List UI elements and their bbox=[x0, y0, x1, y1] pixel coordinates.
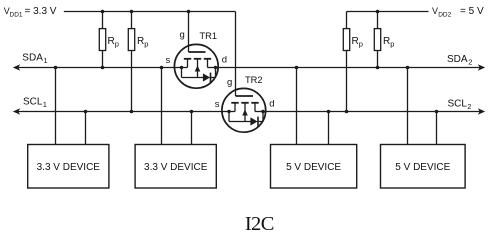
wire device3 SCL bbox=[328, 112, 330, 145]
wire SCL2 bbox=[266, 108, 486, 115]
wire VDD2 rail bbox=[347, 11, 429, 13]
wire device4 SCL bbox=[436, 112, 438, 145]
device box 4 (5 V DEVICE) bbox=[381, 145, 466, 189]
svg-text:s: s bbox=[215, 99, 220, 110]
wire TR1 gate bbox=[188, 12, 190, 53]
wire device1 SCL bbox=[85, 112, 87, 145]
wire device1 SDA bbox=[55, 68, 57, 145]
junction R4-SDA2 bbox=[376, 66, 380, 70]
svg-text:R: R bbox=[352, 36, 359, 47]
resistor R3 (Rp right SCL) bbox=[343, 12, 349, 112]
resistor R1 (Rp left SDA) bbox=[99, 12, 105, 68]
svg-text:s: s bbox=[166, 55, 171, 66]
svg-text:SDA: SDA bbox=[447, 54, 468, 65]
wire SDA2 bbox=[218, 64, 485, 71]
svg-text:DD2: DD2 bbox=[438, 12, 451, 19]
svg-text:2: 2 bbox=[467, 102, 471, 111]
device box 2 (3.3 V DEVICE) bbox=[135, 145, 216, 189]
svg-text:2: 2 bbox=[468, 57, 472, 66]
junction R1-SDA1 bbox=[101, 66, 105, 70]
svg-text:1: 1 bbox=[44, 56, 48, 65]
node VDD2 label bbox=[432, 6, 484, 19]
value label Rp of R3 bbox=[352, 36, 363, 49]
junction SDA1-device1 bbox=[54, 66, 58, 70]
svg-text:DD1: DD1 bbox=[10, 12, 23, 19]
svg-text:R: R bbox=[137, 36, 144, 47]
svg-text:3.3 V DEVICE: 3.3 V DEVICE bbox=[144, 162, 208, 173]
node SDA1 label bbox=[22, 52, 47, 65]
svg-text:5 V DEVICE: 5 V DEVICE bbox=[395, 162, 450, 173]
svg-text:d: d bbox=[269, 99, 274, 110]
junction SDA1-device2 bbox=[160, 66, 164, 70]
junction rail-R1 bbox=[101, 10, 105, 14]
junction SCL1-device1 bbox=[84, 110, 88, 114]
svg-text:R: R bbox=[108, 36, 115, 47]
wire device3 SDA bbox=[296, 68, 298, 145]
transistor TR2 bbox=[222, 88, 266, 132]
svg-text:SCL: SCL bbox=[23, 96, 43, 107]
svg-text:R: R bbox=[383, 36, 390, 47]
svg-text:d: d bbox=[222, 55, 227, 66]
svg-text:g: g bbox=[227, 77, 232, 88]
svg-text:5 V DEVICE: 5 V DEVICE bbox=[286, 162, 341, 173]
junction rail-R4 bbox=[376, 10, 380, 14]
wire VDD1 rail bbox=[64, 11, 236, 13]
wire SCL1 bbox=[13, 108, 222, 115]
junction R3-SCL2 bbox=[345, 110, 349, 114]
device box 3 (5 V DEVICE) bbox=[271, 145, 357, 189]
junction SDA2-device4 bbox=[406, 66, 410, 70]
device box 1 (3.3 V DEVICE) bbox=[28, 145, 109, 189]
junction R2-SCL1 bbox=[130, 110, 134, 114]
junction rail-R2 bbox=[130, 10, 134, 14]
wire device2 SDA bbox=[161, 68, 163, 145]
svg-text:p: p bbox=[144, 39, 148, 48]
junction SCL2-device3 bbox=[327, 110, 331, 114]
svg-text:= 3.3 V: = 3.3 V bbox=[25, 6, 57, 17]
value label Rp of R1 bbox=[108, 36, 119, 49]
resistor R4 (Rp right SDA) bbox=[374, 12, 380, 68]
svg-text:SCL: SCL bbox=[448, 98, 468, 109]
node SCL2 label bbox=[448, 98, 472, 111]
svg-text:3.3 V DEVICE: 3.3 V DEVICE bbox=[37, 162, 101, 173]
node SDA2 label bbox=[447, 54, 472, 67]
node SCL1 label bbox=[23, 96, 47, 109]
junction SCL2-device4 bbox=[435, 110, 439, 114]
transistor TR1 bbox=[174, 44, 218, 88]
svg-text:TR2: TR2 bbox=[245, 75, 263, 85]
junction SDA2-device3 bbox=[295, 66, 299, 70]
junction rail-TR1-gate bbox=[187, 10, 191, 14]
node VDD1 label bbox=[4, 6, 57, 19]
svg-text:p: p bbox=[359, 39, 363, 48]
svg-text:V: V bbox=[432, 6, 438, 16]
wire device4 SDA bbox=[407, 68, 409, 145]
svg-text:1: 1 bbox=[43, 100, 47, 109]
junction SCL1-device2 bbox=[190, 110, 194, 114]
wire device2 SCL bbox=[191, 112, 193, 145]
svg-text:= 5 V: = 5 V bbox=[460, 6, 484, 17]
resistor R2 (Rp left SCL) bbox=[128, 12, 134, 112]
value label Rp of R2 bbox=[137, 36, 148, 49]
svg-text:SDA: SDA bbox=[22, 52, 43, 63]
svg-text:p: p bbox=[115, 39, 119, 48]
svg-text:g: g bbox=[180, 29, 185, 40]
value label Rp of R4 bbox=[383, 36, 394, 49]
wire TR2 gate drop bbox=[235, 12, 237, 97]
wire SDA1 bbox=[13, 64, 175, 71]
svg-text:TR1: TR1 bbox=[200, 31, 218, 41]
svg-text:p: p bbox=[390, 39, 394, 48]
svg-text:I2C: I2C bbox=[245, 213, 274, 235]
